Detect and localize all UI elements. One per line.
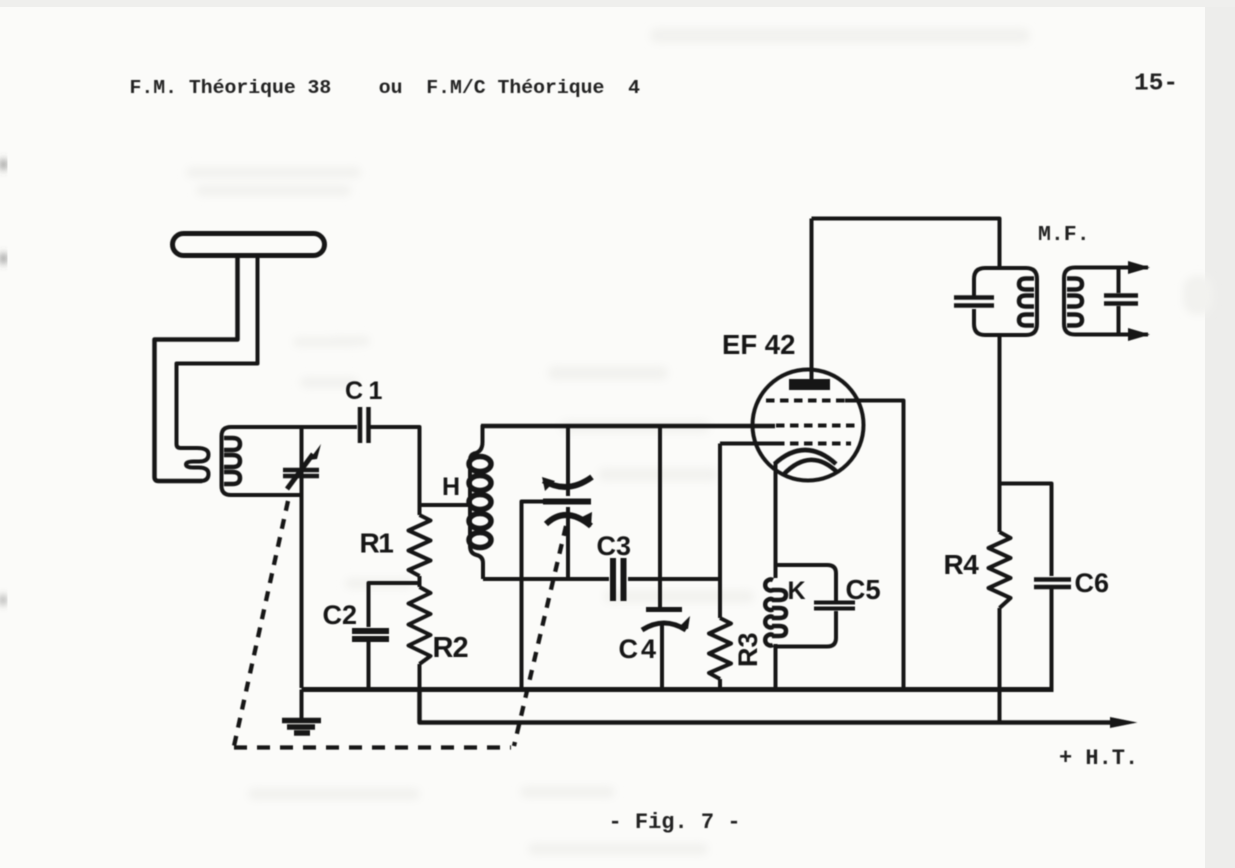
svg-text:M.F.: M.F. bbox=[1038, 223, 1090, 247]
svg-text:C1: C1 bbox=[345, 377, 388, 405]
svg-text:EF 42: EF 42 bbox=[722, 329, 795, 360]
svg-text:R1: R1 bbox=[360, 528, 394, 559]
svg-text:C5: C5 bbox=[846, 574, 881, 605]
svg-text:R2: R2 bbox=[433, 632, 468, 664]
svg-text:C6: C6 bbox=[1075, 568, 1110, 598]
svg-text:- Fig. 7 -: - Fig. 7 - bbox=[609, 810, 741, 835]
svg-text:K: K bbox=[788, 577, 806, 605]
svg-text:F.M. Théorique 38 ou F.M/C: F.M. Théorique 38 ou F.M/C Théorique 4 bbox=[130, 77, 641, 99]
svg-text:H: H bbox=[442, 473, 460, 501]
svg-text:15-: 15- bbox=[1134, 71, 1178, 98]
svg-text:+ H.T.: + H.T. bbox=[1059, 746, 1138, 771]
svg-text:R3: R3 bbox=[733, 632, 763, 667]
svg-text:C4: C4 bbox=[619, 634, 660, 664]
svg-text:C2: C2 bbox=[323, 600, 358, 630]
svg-text:R4: R4 bbox=[944, 549, 980, 580]
svg-text:C3: C3 bbox=[597, 531, 632, 561]
